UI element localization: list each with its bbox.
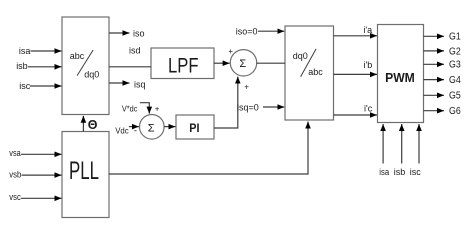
svg-text:isa: isa	[19, 46, 31, 56]
svg-text:i'c: i'c	[364, 104, 373, 114]
svg-text:iso: iso	[133, 29, 145, 39]
svg-text:LPF: LPF	[168, 55, 199, 78]
svg-text:abc: abc	[70, 51, 85, 61]
svg-text:G5: G5	[449, 91, 461, 102]
svg-text:Vdc: Vdc	[115, 126, 129, 136]
svg-text:dq0: dq0	[84, 69, 99, 79]
svg-text:isc: isc	[19, 81, 30, 91]
svg-text:i'b: i'b	[364, 60, 373, 70]
svg-text:vsa: vsa	[9, 148, 20, 158]
svg-text:isq=0: isq=0	[237, 103, 259, 113]
svg-text:isq: isq	[134, 80, 146, 90]
svg-text:G4: G4	[449, 75, 461, 86]
svg-text:PLL: PLL	[69, 158, 99, 185]
svg-text:+: +	[244, 82, 249, 91]
svg-text:+: +	[155, 105, 160, 114]
svg-text:Σ: Σ	[239, 58, 246, 70]
svg-text:PWM: PWM	[385, 71, 415, 85]
svg-text:V*dc: V*dc	[122, 104, 138, 114]
svg-text:G6: G6	[449, 106, 461, 117]
svg-text:Θ: Θ	[88, 118, 98, 132]
svg-text:iso=0: iso=0	[236, 27, 258, 37]
svg-text:Σ: Σ	[148, 123, 155, 135]
svg-text:isb: isb	[16, 61, 28, 71]
svg-text:+: +	[228, 47, 233, 56]
svg-text:G2: G2	[449, 46, 461, 57]
svg-text:vsc: vsc	[9, 192, 21, 202]
svg-text:G1: G1	[449, 32, 461, 43]
svg-text:-: -	[134, 125, 137, 136]
svg-text:PI: PI	[189, 123, 199, 135]
svg-text:isc: isc	[410, 167, 421, 177]
svg-text:i'a: i'a	[363, 25, 372, 35]
svg-text:vsb: vsb	[9, 169, 21, 179]
svg-text:G3: G3	[449, 60, 461, 71]
svg-text:isa: isa	[379, 167, 389, 177]
svg-text:dq0: dq0	[293, 51, 308, 61]
svg-text:isb: isb	[394, 167, 406, 177]
svg-text:abc: abc	[308, 67, 323, 77]
svg-text:isd: isd	[129, 46, 141, 56]
